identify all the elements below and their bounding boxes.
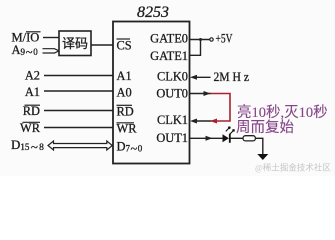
wire resistor to ground [255, 138, 262, 154]
svg-text:2M H z: 2M H z [214, 70, 250, 84]
svg-text:RD: RD [117, 104, 134, 118]
red feedback wire OUT0 to CLK1 [211, 94, 231, 122]
svg-text:@稀土掘金技术社区: @稀土掘金技术社区 [255, 163, 331, 173]
terminal circle +5V [210, 38, 213, 41]
svg-text:CLK0: CLK0 [157, 70, 188, 84]
svg-text:CLK1: CLK1 [157, 113, 188, 127]
svg-text:8253: 8253 [137, 4, 169, 21]
svg-text:WR: WR [117, 122, 138, 136]
wire OUT0 black [190, 93, 212, 95]
decoder box 译码 [59, 31, 91, 56]
svg-text:RD: RD [23, 104, 40, 118]
overline IO [26, 31, 41, 33]
LED cathode bar [229, 134, 231, 143]
red arrowhead [210, 119, 217, 124]
svg-text:A0: A0 [117, 86, 132, 100]
data bus double arrow D15~8 to D7~0 [48, 141, 112, 150]
ground [257, 154, 268, 160]
wire 2MHz to CLK0 [193, 76, 211, 78]
svg-text:WR: WR [20, 121, 41, 135]
svg-text:译码: 译码 [62, 36, 88, 51]
IC U1 8253 chip body [113, 22, 190, 164]
LED D1 [223, 134, 229, 142]
wire RD to pin RD [44, 110, 113, 112]
bus arrow A9~0 to decoder [43, 49, 60, 53]
svg-text:A1: A1 [117, 69, 132, 83]
wire OUT1 to LED [190, 137, 223, 139]
wire GATE0 to +5V [190, 39, 211, 41]
wire into CLK1 [193, 120, 211, 122]
arrowhead OUT1 [206, 136, 213, 141]
svg-text:OUT0: OUT0 [156, 86, 188, 100]
arrowhead into CLK0 [190, 75, 197, 80]
wire A1 to pin A0 [44, 90, 113, 92]
svg-text:亮10秒,灭10秒: 亮10秒,灭10秒 [237, 104, 328, 121]
wire decoder to CS [91, 44, 113, 46]
svg-text:+5V: +5V [216, 31, 233, 46]
svg-text:GATE0: GATE0 [150, 32, 188, 46]
svg-text:A1: A1 [25, 85, 40, 99]
arrowhead OUT0 [204, 91, 211, 96]
wire M/IO to decoder [43, 37, 59, 39]
svg-text:CS: CS [117, 39, 132, 53]
svg-text:OUT1: OUT1 [156, 131, 188, 145]
wire WR to pin WR [44, 127, 113, 129]
svg-text:周而复始: 周而复始 [236, 118, 294, 136]
junction dot [199, 38, 202, 41]
svg-text:GATE1: GATE1 [150, 49, 188, 63]
resistor R1 [243, 136, 255, 141]
arrowhead into CLK1 [190, 119, 197, 124]
LED light arrows [226, 127, 230, 132]
svg-text:A2: A2 [25, 69, 40, 83]
wire LED to resistor [231, 137, 244, 139]
wire GATE1 bracket [190, 40, 201, 56]
wire A2 to pin A1 [44, 75, 113, 77]
